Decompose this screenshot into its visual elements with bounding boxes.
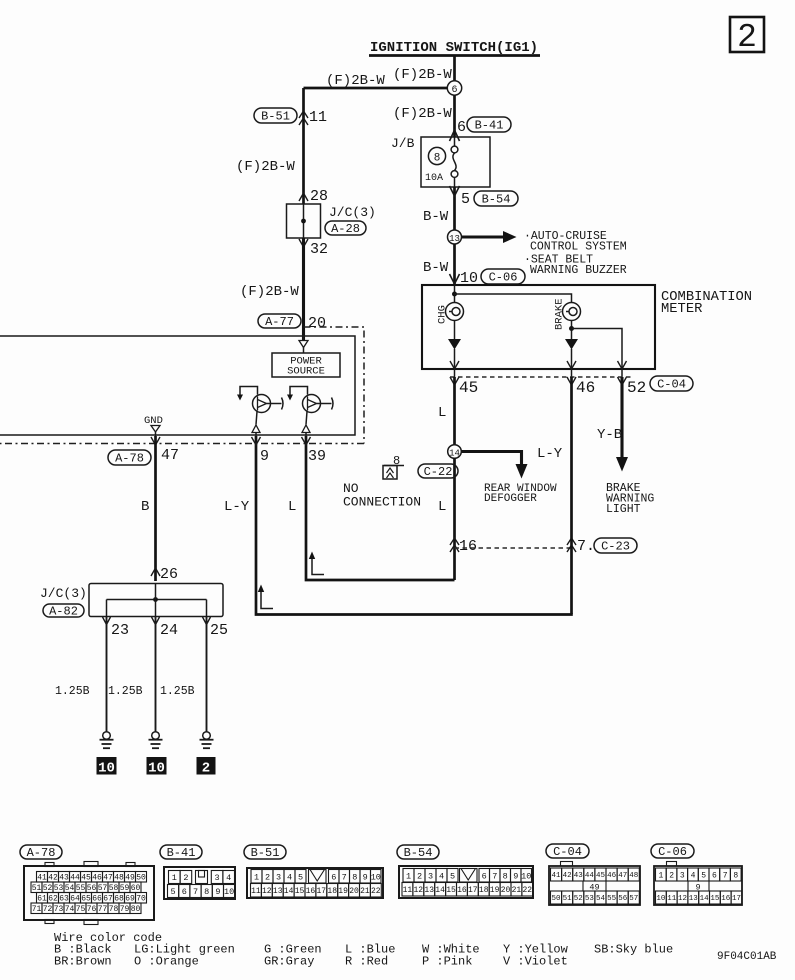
svg-text:C-04: C-04 [553, 845, 582, 859]
ground ref tag 10 [97, 757, 117, 775]
svg-text:64: 64 [70, 895, 80, 904]
svg-text:9: 9 [260, 448, 269, 465]
page number box 2 [730, 17, 764, 52]
entry triangle pin 20 [303, 336, 305, 340]
svg-text:63: 63 [59, 895, 69, 904]
svg-text:44: 44 [585, 872, 595, 880]
wire J/C(3) down to alternator [302, 238, 305, 340]
svg-text:WARNING BUZZER: WARNING BUZZER [530, 264, 627, 277]
svg-text:1.25B: 1.25B [55, 685, 90, 698]
connector label A-28 [325, 221, 366, 235]
ground symbol 2 [152, 732, 160, 740]
node 6 (junction circle) [447, 81, 461, 95]
svg-text:8: 8 [733, 871, 738, 880]
svg-text:B-51: B-51 [251, 846, 280, 860]
svg-text:IGNITION SWITCH(IG1): IGNITION SWITCH(IG1) [370, 40, 538, 56]
svg-text:47: 47 [161, 447, 179, 464]
svg-text:57: 57 [98, 884, 108, 893]
wire pin 46 down [570, 377, 573, 614]
svg-text:1: 1 [254, 872, 259, 882]
ground symbol 3 [203, 732, 211, 740]
svg-text:7: 7 [342, 872, 347, 882]
connector label C-22 [418, 464, 458, 478]
connector C-04 pinout table [549, 866, 640, 905]
wire J/B to node 13 [453, 187, 456, 230]
svg-text:J/C(3): J/C(3) [40, 586, 87, 601]
svg-text:10: 10 [371, 872, 381, 882]
ground ref tag 10 [147, 757, 167, 775]
svg-text:73: 73 [54, 905, 64, 914]
svg-text:6: 6 [482, 871, 487, 881]
svg-text:45: 45 [81, 874, 91, 883]
svg-text:9: 9 [513, 871, 518, 881]
Q2 emitter to exit triangle [306, 412, 307, 425]
svg-text:DEFOGGER: DEFOGGER [484, 493, 537, 505]
svg-text:55: 55 [607, 895, 617, 903]
svg-text:2: 2 [737, 19, 757, 56]
svg-text:9F04C01AB: 9F04C01AB [717, 951, 777, 963]
svg-text:56: 56 [87, 884, 97, 893]
svg-text:7: 7 [723, 871, 728, 880]
svg-text:CONNECTION: CONNECTION [343, 495, 421, 510]
svg-text:11: 11 [403, 886, 413, 895]
svg-text:69: 69 [125, 895, 135, 904]
wire to brake lamp [455, 294, 572, 303]
svg-text:78: 78 [109, 905, 119, 914]
svg-text:J/C(3): J/C(3) [329, 205, 376, 220]
svg-text:(F)2B-W: (F)2B-W [393, 106, 452, 122]
wire pin 45 to node 14 [453, 377, 456, 445]
svg-text:2: 2 [417, 871, 422, 881]
svg-text:10: 10 [98, 761, 115, 777]
svg-text:28: 28 [310, 188, 328, 205]
svg-text:7.: 7. [577, 538, 595, 555]
svg-text:1: 1 [658, 871, 663, 880]
svg-text:4: 4 [226, 873, 231, 883]
svg-text:10: 10 [656, 895, 666, 903]
svg-text:46: 46 [576, 379, 595, 397]
diode (CHG) [448, 339, 461, 350]
svg-text:2: 2 [265, 872, 270, 882]
svg-text:22: 22 [371, 887, 381, 896]
svg-text:V :Violet: V :Violet [503, 955, 568, 969]
svg-text:24: 24 [160, 622, 178, 639]
svg-text:A-78: A-78 [115, 452, 144, 466]
svg-text:11: 11 [667, 895, 677, 903]
svg-text:3: 3 [215, 873, 220, 883]
svg-text:70: 70 [136, 895, 146, 904]
connector label B-54 [474, 191, 518, 206]
svg-text:68: 68 [114, 895, 124, 904]
svg-text:8: 8 [352, 872, 357, 882]
combination meter box [422, 285, 655, 369]
svg-text:16: 16 [459, 538, 477, 555]
svg-text:65: 65 [81, 895, 91, 904]
svg-text:53: 53 [585, 895, 595, 903]
svg-text:6: 6 [451, 85, 457, 96]
alternator solid box [0, 336, 355, 435]
svg-text:5: 5 [450, 871, 455, 881]
exit chevrons pins 47 9 39 [151, 437, 160, 445]
svg-text:A-77: A-77 [265, 315, 294, 329]
junction block J/C(3) A-82 [89, 584, 223, 617]
svg-text:1.25B: 1.25B [108, 685, 143, 698]
svg-text:20: 20 [308, 315, 326, 332]
connector B-41 crossing chevron [450, 130, 460, 141]
svg-text:21: 21 [512, 886, 522, 895]
svg-text:18: 18 [327, 887, 337, 896]
connector label C-06 (pinout) [651, 844, 694, 858]
internal bus [107, 599, 207, 601]
svg-text:(F)2B-W: (F)2B-W [236, 159, 295, 175]
svg-text:4: 4 [287, 872, 292, 882]
svg-text:52: 52 [627, 379, 646, 397]
svg-text:57: 57 [629, 895, 638, 903]
svg-text:5: 5 [701, 871, 706, 880]
svg-text:60: 60 [131, 884, 141, 893]
svg-text:4: 4 [691, 871, 696, 880]
connector A-78 pinout table [24, 866, 154, 920]
svg-text:13: 13 [449, 234, 460, 244]
connector label A-82 [43, 604, 84, 617]
ground wires [106, 617, 108, 733]
svg-text:L-Y: L-Y [224, 499, 250, 515]
connector C-04 dashed line [450, 376, 633, 378]
svg-text:56: 56 [618, 895, 628, 903]
svg-text:45: 45 [596, 872, 606, 880]
connector label B-41 [467, 117, 511, 132]
svg-text:50: 50 [551, 895, 561, 903]
svg-text:66: 66 [92, 895, 102, 904]
svg-text:1: 1 [172, 873, 177, 883]
svg-text:23: 23 [111, 622, 129, 639]
svg-text:14: 14 [700, 895, 710, 903]
svg-text:54: 54 [596, 895, 606, 903]
svg-text:(F)2B-W: (F)2B-W [240, 284, 299, 300]
svg-text:B-41: B-41 [167, 846, 196, 860]
svg-text:LIGHT: LIGHT [606, 503, 641, 516]
pin 28 chevron [299, 193, 308, 201]
svg-text:42: 42 [48, 874, 58, 883]
svg-text:BR:Brown: BR:Brown [54, 955, 112, 969]
svg-text:48: 48 [629, 872, 638, 880]
svg-text:47: 47 [103, 874, 113, 883]
svg-text:Y-B: Y-B [597, 427, 622, 443]
pin 5 chevron [450, 186, 460, 196]
connector C-23 crossing pin 7 double chevron [567, 538, 576, 545]
branch to rear window defogger [462, 452, 522, 467]
svg-text:15: 15 [710, 895, 720, 903]
alternator dashed outline [0, 327, 364, 444]
connector label A-77 [258, 314, 301, 328]
svg-text:59: 59 [120, 884, 130, 893]
connector label A-78 (pinout) [20, 845, 62, 859]
wire node 13 to combination meter [453, 244, 456, 285]
flow arrow at corner [312, 557, 324, 575]
svg-text:12: 12 [413, 886, 423, 895]
fuse element 10A [454, 137, 456, 146]
svg-text:53: 53 [54, 884, 64, 893]
svg-text:7: 7 [492, 871, 497, 881]
svg-text:79: 79 [120, 905, 130, 914]
svg-text:C-04: C-04 [657, 378, 686, 392]
wire to pin 9 (corner) [256, 436, 573, 615]
svg-text:77: 77 [98, 905, 108, 914]
svg-text:L: L [438, 499, 446, 515]
wire to pin 39 (corner) [306, 436, 455, 580]
svg-text:L: L [438, 405, 446, 421]
svg-text:5: 5 [461, 191, 470, 208]
svg-text:CONTROL SYSTEM: CONTROL SYSTEM [530, 241, 627, 254]
svg-text:11: 11 [251, 887, 261, 896]
svg-text:10: 10 [224, 887, 234, 897]
connector label C-23 [594, 538, 637, 553]
svg-text:3: 3 [680, 871, 685, 880]
svg-text:10A: 10A [425, 173, 443, 184]
svg-text:32: 32 [310, 241, 328, 258]
svg-text:54: 54 [65, 884, 75, 893]
connector C-06 pinout table [654, 866, 742, 905]
svg-text:R :Red: R :Red [345, 955, 388, 969]
svg-text:3: 3 [276, 872, 281, 882]
svg-text:13: 13 [424, 886, 434, 895]
connector label B-51 (pinout) [244, 845, 286, 859]
svg-text:1: 1 [406, 871, 411, 881]
BRAKE warning lamp [563, 303, 581, 321]
svg-text:2: 2 [183, 873, 188, 883]
connector C-23 dashed link [455, 547, 572, 549]
pin 26 double chevron [151, 568, 160, 576]
svg-text:CHG: CHG [437, 305, 449, 324]
svg-text:10: 10 [521, 871, 531, 881]
connector B-54 pinout table [399, 866, 533, 898]
svg-text:62: 62 [48, 895, 58, 904]
ground ref tag 2 [197, 757, 216, 775]
svg-text:19: 19 [338, 887, 348, 896]
svg-text:25: 25 [210, 622, 228, 639]
svg-text:44: 44 [70, 874, 80, 883]
svg-text:76: 76 [87, 905, 97, 914]
svg-text:16: 16 [721, 895, 731, 903]
svg-text:A-28: A-28 [331, 222, 360, 236]
svg-text:C-22: C-22 [424, 465, 453, 479]
svg-text:26: 26 [160, 566, 178, 583]
svg-text:2: 2 [202, 761, 210, 777]
svg-text:80: 80 [131, 905, 141, 914]
fuse number circle 8 [428, 147, 445, 164]
wire node 6 left branch [304, 87, 448, 90]
CHG warning lamp [446, 303, 464, 321]
ground wire 47 down to J/C(3) A-82 [154, 436, 157, 581]
connector B-41 pinout table [164, 867, 235, 899]
svg-text:A-82: A-82 [49, 605, 78, 619]
ground symbol 1 [103, 732, 111, 740]
svg-text:(F)2B-W: (F)2B-W [393, 67, 452, 83]
connector label B-51 [254, 108, 297, 123]
svg-text:(F)2B-W: (F)2B-W [326, 73, 385, 89]
svg-text:72: 72 [43, 905, 53, 914]
svg-text:B-51: B-51 [261, 110, 290, 124]
svg-text:BRAKE: BRAKE [554, 298, 566, 330]
wire node 6 to J/B fuse box [453, 95, 456, 137]
svg-text:GR:Gray: GR:Gray [264, 955, 314, 969]
svg-text:19: 19 [490, 886, 500, 895]
svg-text:14: 14 [284, 887, 294, 896]
connector label C-06 [481, 269, 525, 284]
svg-text:51: 51 [32, 884, 42, 893]
svg-text:20: 20 [501, 886, 511, 895]
svg-text:B-W: B-W [423, 209, 449, 225]
svg-text:41: 41 [551, 872, 561, 880]
svg-text:67: 67 [103, 895, 113, 904]
svg-text:52: 52 [574, 895, 583, 903]
svg-text:12: 12 [262, 887, 272, 896]
svg-text:16: 16 [457, 886, 467, 895]
svg-text:3: 3 [428, 871, 433, 881]
svg-text:15: 15 [295, 887, 305, 896]
svg-text:41: 41 [37, 874, 47, 883]
svg-text:48: 48 [114, 874, 124, 883]
svg-text:B-41: B-41 [475, 119, 504, 133]
svg-text:6: 6 [712, 871, 717, 880]
svg-text:17: 17 [468, 886, 478, 895]
meter exit chevrons pins 45 46 52 [450, 361, 459, 369]
svg-text:L: L [288, 499, 296, 515]
svg-text:9: 9 [215, 887, 220, 897]
connector label C-04 [650, 376, 693, 391]
svg-text:58: 58 [109, 884, 119, 893]
svg-text:46: 46 [607, 872, 617, 880]
transistor Q2 [303, 395, 321, 413]
svg-text:22: 22 [522, 886, 532, 895]
wire left branch down to J/C(3) [302, 88, 305, 204]
svg-text:B: B [141, 499, 149, 515]
svg-text:B-54: B-54 [404, 846, 433, 860]
svg-text:75: 75 [76, 905, 86, 914]
arrow branch to auto-cruise / seat belt [462, 235, 504, 238]
svg-text:14: 14 [449, 448, 460, 458]
svg-text:42: 42 [563, 872, 572, 880]
Q1 emitter to exit triangle [256, 412, 257, 425]
svg-text:SB:Sky blue: SB:Sky blue [594, 943, 673, 957]
svg-text:11: 11 [309, 109, 327, 126]
exit chevrons pins 23 24 25 [103, 617, 111, 625]
connector label B-41 (pinout) [160, 845, 202, 859]
pin 32 chevron [299, 239, 308, 247]
svg-text:6: 6 [331, 872, 336, 882]
svg-text:METER: METER [661, 302, 702, 317]
pin 10 chevron [450, 274, 460, 284]
flow arrow at corner [261, 590, 273, 609]
svg-text:6: 6 [182, 887, 187, 897]
connector label B-54 (pinout) [397, 845, 439, 859]
junction block J/C(3) A-28 [287, 204, 321, 238]
svg-text:8: 8 [434, 153, 441, 165]
svg-text:C-23: C-23 [601, 540, 630, 554]
svg-text:18: 18 [479, 886, 489, 895]
svg-text:5: 5 [171, 887, 176, 897]
svg-text:43: 43 [574, 872, 584, 880]
svg-text:61: 61 [37, 895, 47, 904]
svg-text:50: 50 [136, 874, 146, 883]
svg-text:71: 71 [32, 905, 42, 914]
svg-text:74: 74 [65, 905, 75, 914]
svg-text:7: 7 [193, 887, 198, 897]
svg-text:6: 6 [457, 119, 466, 136]
connector C-23 crossing pin 16 double chevron [450, 538, 459, 545]
svg-text:B-W: B-W [423, 260, 449, 276]
svg-text:39: 39 [308, 448, 326, 465]
svg-text:2: 2 [669, 871, 674, 880]
svg-text:P :Pink: P :Pink [422, 955, 472, 969]
svg-text:14: 14 [435, 886, 445, 895]
wire CHG lamp to diode [454, 321, 456, 340]
connector label A-78 [108, 450, 151, 465]
svg-text:8: 8 [503, 871, 508, 881]
svg-text:J/B: J/B [391, 136, 415, 151]
wire node 14 down [453, 458, 456, 580]
svg-text:12: 12 [678, 895, 687, 903]
svg-text:A-78: A-78 [27, 846, 56, 860]
node (junction dot) at meter entry [454, 285, 456, 303]
svg-text:SOURCE: SOURCE [287, 366, 325, 378]
svg-text:L-Y: L-Y [537, 446, 563, 462]
diode (BRAKE) [565, 339, 578, 350]
svg-text:45: 45 [459, 379, 478, 397]
wire from ignition switch down to node 6 [453, 56, 456, 81]
svg-text:15: 15 [446, 886, 456, 895]
svg-text:55: 55 [76, 884, 86, 893]
connector B-51 pinout table [247, 868, 383, 898]
svg-text:52: 52 [43, 884, 53, 893]
svg-text:4: 4 [439, 871, 444, 881]
node 14 (junction circle) [448, 445, 462, 459]
svg-text:5: 5 [298, 872, 303, 882]
wire pin 52 to brake warning light [620, 377, 623, 459]
svg-text:10: 10 [148, 761, 165, 777]
transistor Q1 [253, 395, 271, 413]
svg-text:21: 21 [360, 887, 370, 896]
svg-text:49: 49 [125, 874, 135, 883]
svg-text:17: 17 [316, 887, 326, 896]
node 13 (junction circle) [448, 230, 462, 244]
svg-text:17: 17 [732, 895, 741, 903]
svg-text:9: 9 [363, 872, 368, 882]
svg-text:1.25B: 1.25B [160, 685, 195, 698]
connector label C-04 (pinout) [546, 844, 589, 858]
svg-text:20: 20 [349, 887, 359, 896]
svg-text:B-54: B-54 [482, 193, 511, 207]
connector B-51 double chevron [299, 111, 308, 118]
svg-text:51: 51 [563, 895, 573, 903]
wire BRAKE lamp to diode, junction to pin 52 [571, 321, 573, 340]
svg-text:43: 43 [59, 874, 69, 883]
svg-text:46: 46 [92, 874, 102, 883]
svg-text:47: 47 [618, 872, 627, 880]
svg-text:16: 16 [306, 887, 316, 896]
power source block [272, 353, 340, 377]
svg-text:8: 8 [204, 887, 209, 897]
svg-text:13: 13 [273, 887, 283, 896]
svg-text:O :Orange: O :Orange [134, 955, 199, 969]
svg-text:13: 13 [689, 895, 699, 903]
svg-text:C-06: C-06 [489, 271, 518, 285]
svg-text:C-06: C-06 [658, 845, 687, 859]
